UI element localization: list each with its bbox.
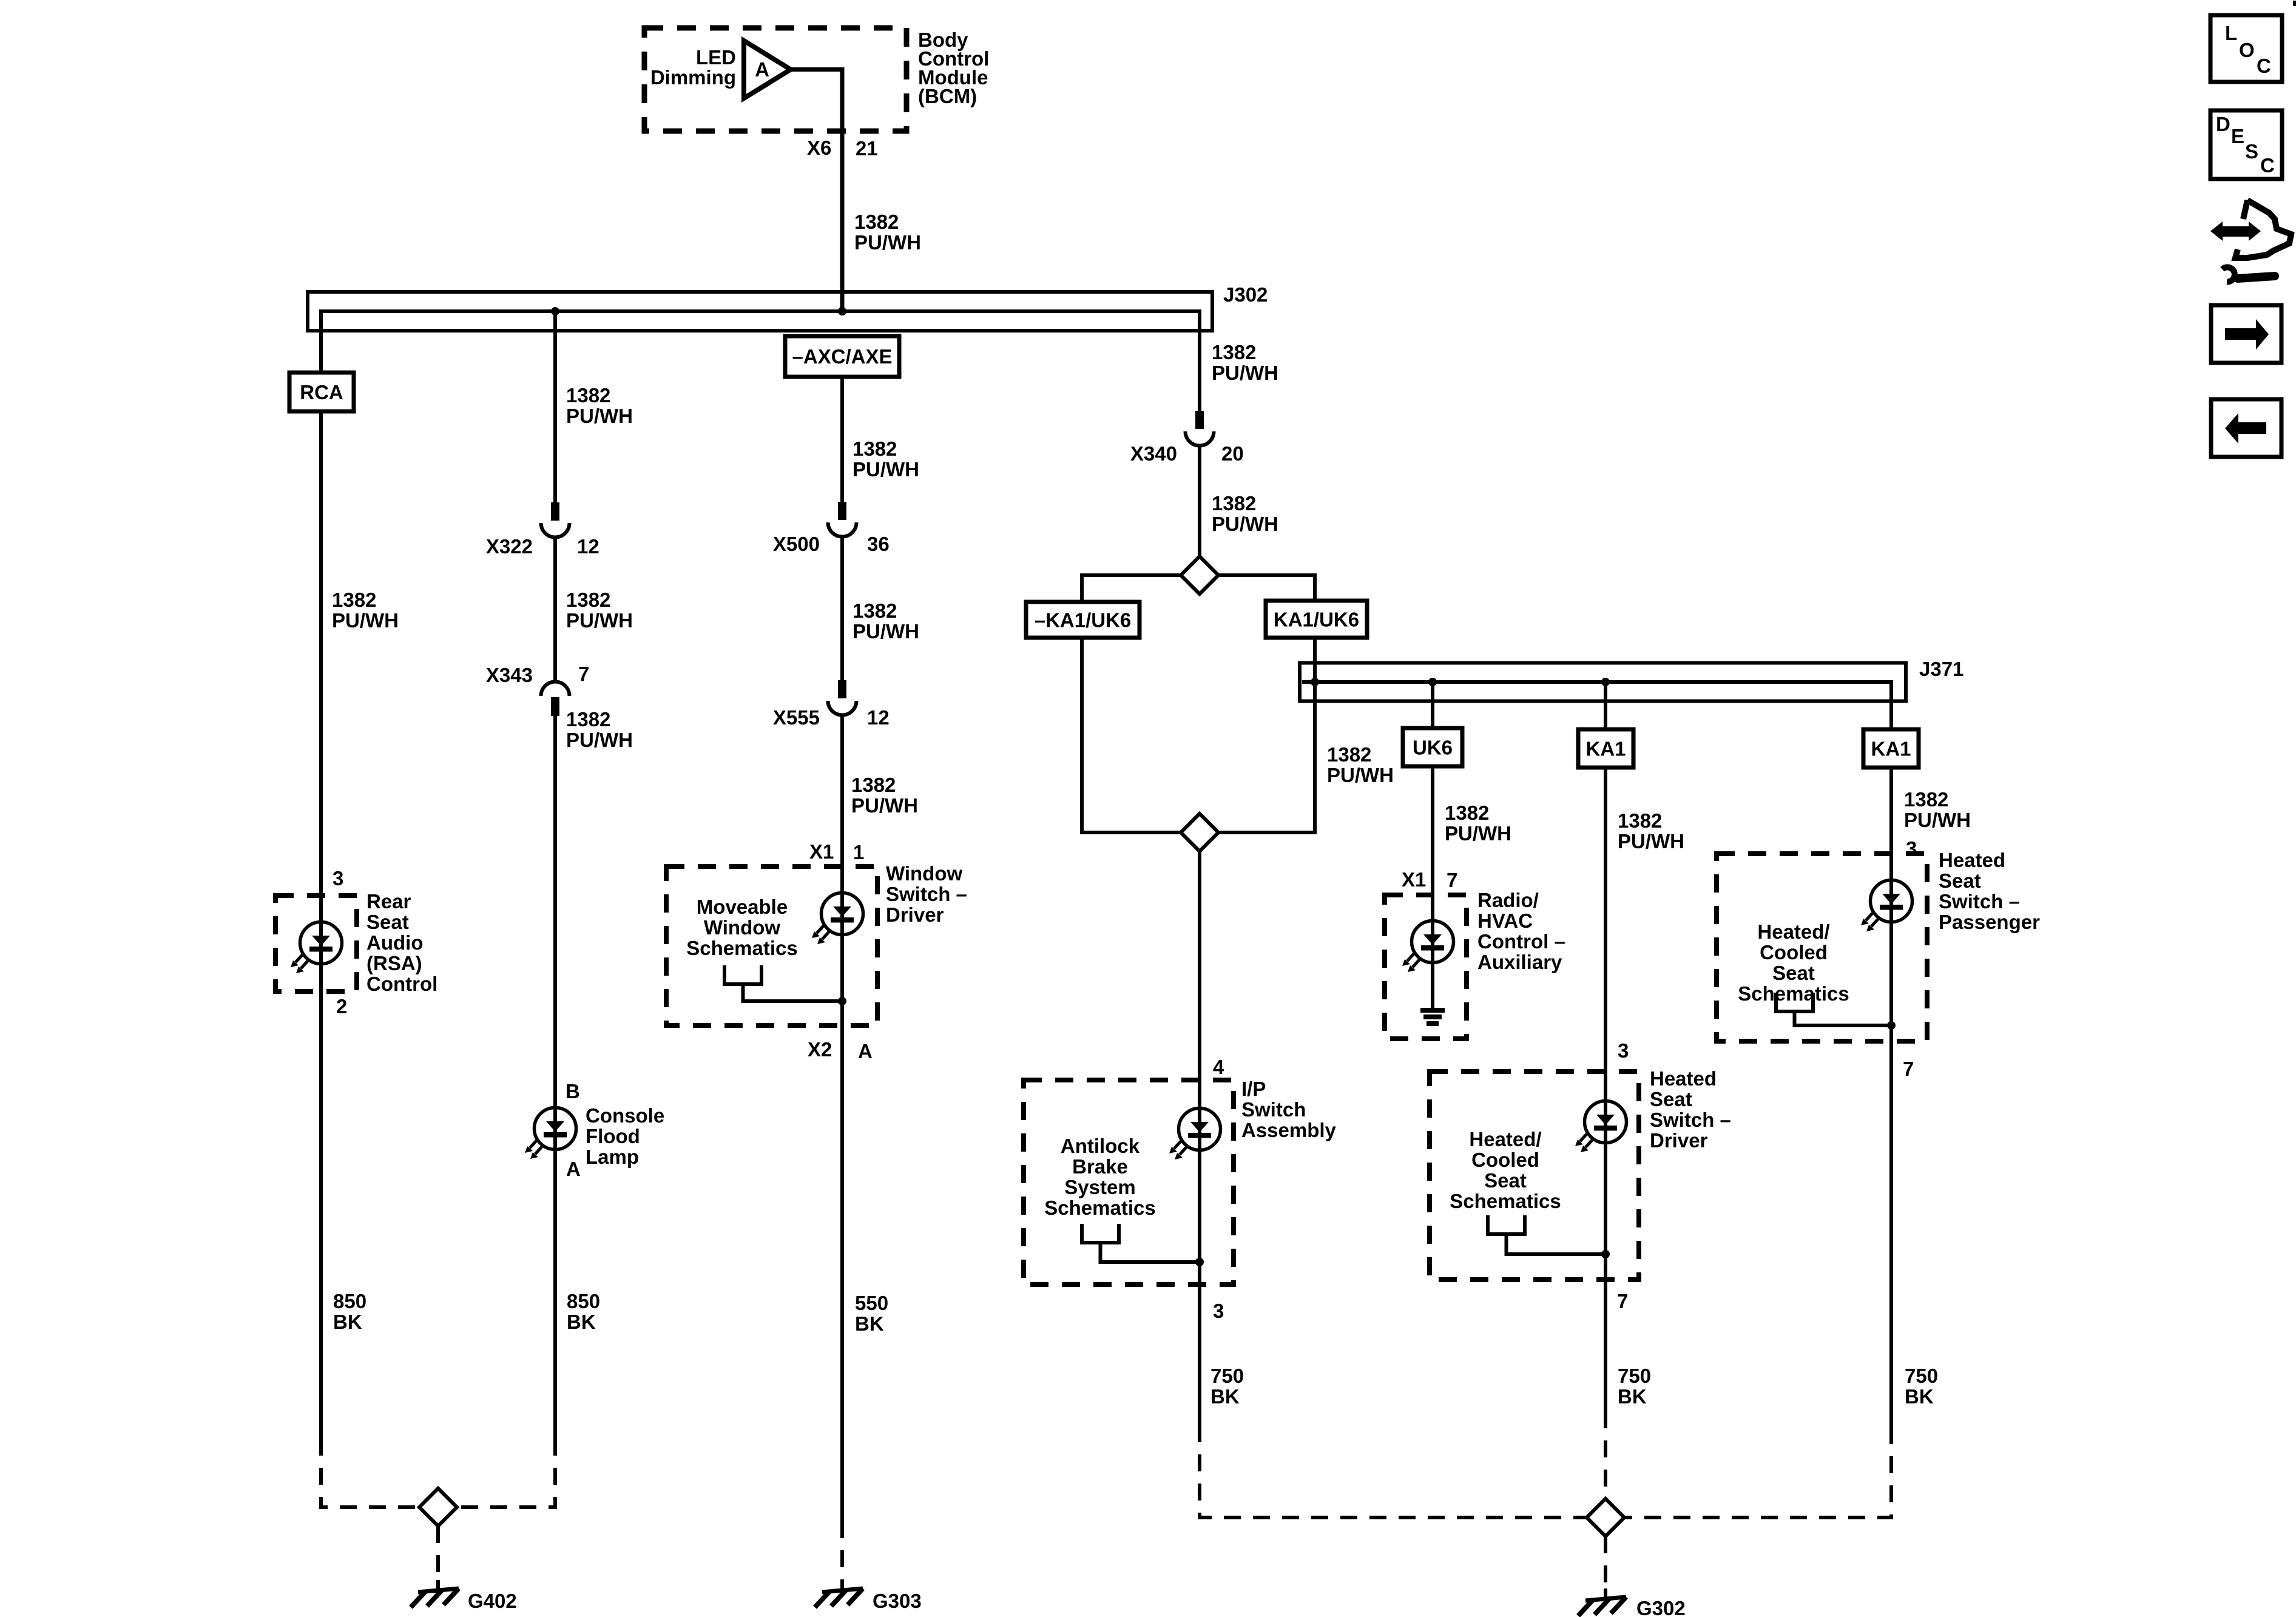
svg-text:A: A (858, 1040, 873, 1062)
connector X343 (541, 681, 570, 716)
svg-text:X322: X322 (486, 535, 533, 558)
svg-text:G303: G303 (873, 1590, 922, 1612)
svg-text:Assembly: Assembly (1241, 1119, 1337, 1141)
Heated/Cooled Seat Schematics dashed box (passenger) (1717, 854, 1927, 1041)
svg-text:PU/WH: PU/WH (566, 405, 633, 427)
svg-text:PU/WH: PU/WH (1618, 830, 1684, 852)
schematic reference bracket (moveable window) (724, 965, 761, 984)
LOC icon box (2210, 15, 2282, 82)
wire KA1 driver down (1604, 768, 1607, 1411)
svg-text:Schematics: Schematics (1450, 1190, 1561, 1212)
svg-text:750: 750 (1905, 1365, 1938, 1387)
Antilock Brake System Schematics label (1044, 1135, 1155, 1219)
svg-text:PU/WH: PU/WH (1212, 513, 1278, 535)
svg-text:B: B (566, 1080, 580, 1102)
svg-text:X343: X343 (486, 664, 533, 686)
LED indicator (RSA control) (291, 922, 342, 974)
svg-text:Window: Window (704, 916, 780, 939)
wire label 1382 PU/WH (KA1/UK6 drop) (1327, 743, 1394, 786)
wire bracket to KA1 passenger wire (1795, 1011, 1892, 1025)
wire label 550 BK (855, 1292, 888, 1335)
wire label 1382 PU/WH (console branch mid) (566, 589, 633, 632)
svg-text:RCA: RCA (300, 381, 343, 403)
wire -KA1/UK6 down to lower splice (1082, 638, 1183, 832)
Radio/HVAC dashed box (1385, 895, 1467, 1039)
RSA Control label (366, 890, 437, 995)
svg-text:Schematics: Schematics (1044, 1197, 1155, 1219)
svg-text:Schematics: Schematics (686, 937, 797, 959)
wire label 1382 PU/WH (window branch upper) (853, 437, 919, 481)
LED window switch illumination (812, 893, 863, 945)
LED Dimming label (650, 46, 736, 89)
wire label 1382 PU/WH (RCA branch) (332, 589, 399, 632)
svg-text:X340: X340 (1130, 442, 1177, 465)
svg-text:Seat: Seat (1772, 962, 1815, 984)
right arrow icon box (2211, 305, 2281, 363)
Heated Seat Switch - Passenger label (1939, 849, 2040, 933)
connector X322 (541, 502, 570, 538)
earth ground (radio internal) (1420, 1008, 1445, 1026)
svg-text:Driver: Driver (886, 903, 944, 926)
wire X343 down to console lamp (553, 715, 557, 1439)
junction dot (heated/cooled driver tap) (1601, 1250, 1610, 1258)
svg-text:O: O (2239, 39, 2255, 61)
svg-text:Seat: Seat (1939, 869, 1981, 892)
schematic reference bracket (heated/cooled passenger) (1776, 993, 1813, 1011)
svg-text:3: 3 (333, 867, 343, 890)
svg-text:1382: 1382 (851, 774, 896, 796)
pin X6 21 labels (807, 137, 878, 160)
svg-text:1382: 1382 (566, 384, 610, 407)
connector -KA1/UK6 box (1026, 602, 1140, 638)
wire label 1382 PU/WH (UK6 branch) (1445, 802, 1511, 845)
wire X500 to X555 (840, 536, 844, 681)
I/P Switch Assembly label (1241, 1078, 1337, 1141)
Moveable Window Schematics label (686, 896, 797, 959)
svg-text:Heated/: Heated/ (1469, 1128, 1541, 1150)
svg-text:PU/WH: PU/WH (566, 729, 633, 751)
ground G302 (1578, 1588, 1686, 1617)
svg-text:E: E (2231, 125, 2244, 147)
pin X1 7 (radio) (1402, 868, 1457, 891)
schematic reference bracket (ABS) (1082, 1224, 1119, 1243)
wire UK6 drop (1431, 682, 1434, 728)
svg-text:1382: 1382 (1212, 492, 1256, 515)
wire bracket to window wire (743, 984, 843, 1001)
svg-text:Cooled: Cooled (1760, 941, 1828, 964)
connector KA1 box (driver) (1578, 729, 1633, 768)
svg-text:Switch: Switch (1241, 1098, 1306, 1121)
svg-text:PU/WH: PU/WH (853, 620, 919, 643)
svg-text:Moveable: Moveable (697, 896, 788, 918)
splice pack J371 outer box (1300, 663, 1906, 701)
junction dot (ABS tap) (1195, 1258, 1204, 1266)
svg-text:1382: 1382 (854, 211, 899, 233)
svg-text:C: C (2260, 154, 2275, 177)
svg-text:Seat: Seat (366, 911, 409, 933)
svg-text:1382: 1382 (853, 437, 897, 460)
Heated/Cooled Seat Schematics dashed box (driver) (1430, 1072, 1639, 1280)
wire bracket to KA1 driver wire (1507, 1234, 1606, 1254)
svg-text:20: 20 (1221, 442, 1244, 465)
svg-text:Flood: Flood (586, 1125, 640, 1147)
LED I/P switch assembly (1169, 1109, 1221, 1160)
svg-text:J302: J302 (1223, 283, 1268, 306)
Console Flood Lamp label (586, 1104, 664, 1168)
svg-text:–AXC/AXE: –AXC/AXE (792, 345, 892, 368)
wire X555 down to G303 (840, 714, 844, 1521)
svg-text:750: 750 (1210, 1365, 1244, 1387)
svg-text:BK: BK (1210, 1385, 1240, 1408)
svg-text:1382: 1382 (1904, 788, 1948, 811)
junction on J302 (BCM feed) (838, 307, 846, 316)
wire console branch upper (553, 311, 557, 504)
dashed wire RSA branch to G402 (321, 1439, 421, 1507)
svg-text:A: A (566, 1158, 581, 1180)
svg-text:Switch –: Switch – (1939, 890, 2020, 913)
svg-text:Auxiliary: Auxiliary (1477, 951, 1562, 973)
svg-text:Seat: Seat (1650, 1088, 1692, 1110)
wire KA1 passenger down (1889, 768, 1893, 1427)
svg-text:Lamp: Lamp (586, 1146, 639, 1168)
svg-text:L: L (2225, 22, 2237, 44)
svg-text:2: 2 (336, 995, 347, 1018)
Body Control Module (BCM) dashed box (644, 28, 907, 131)
svg-text:X555: X555 (773, 706, 820, 729)
svg-text:7: 7 (578, 663, 589, 685)
svg-text:Passenger: Passenger (1939, 911, 2040, 933)
wire KA1 driver drop (1604, 682, 1607, 729)
wire lower splice to I/P switch (1198, 851, 1201, 1425)
svg-text:G302: G302 (1636, 1597, 1686, 1617)
wire label 1382 PU/WH (right branch above X340) (1212, 341, 1278, 384)
junction on J371 (KA1/UK6 feed) (1311, 678, 1319, 686)
svg-text:PU/WH: PU/WH (566, 609, 633, 632)
svg-text:21: 21 (856, 137, 878, 160)
svg-text:Switch –: Switch – (1650, 1109, 1731, 1131)
svg-text:G402: G402 (468, 1590, 517, 1612)
wire label 1382 PU/WH (console branch top) (566, 384, 633, 427)
svg-text:3: 3 (1906, 837, 1917, 860)
ground G303 (815, 1580, 922, 1612)
svg-text:PU/WH: PU/WH (1904, 809, 1971, 831)
svg-text:I/P: I/P (1241, 1078, 1266, 1100)
svg-text:C: C (2257, 55, 2271, 77)
svg-text:Schematics: Schematics (1738, 982, 1849, 1005)
svg-text:36: 36 (867, 533, 890, 555)
splice diamond G402 (419, 1488, 457, 1526)
svg-text:Seat: Seat (1484, 1169, 1527, 1192)
tools / schematic navigation icon (2210, 200, 2291, 282)
svg-text:850: 850 (333, 1290, 366, 1312)
svg-text:Control: Control (366, 973, 437, 995)
splice diamond G302 (1587, 1499, 1624, 1536)
Radio/HVAC Control - Auxiliary label (1477, 889, 1565, 973)
connector KA1 box (passenger) (1863, 729, 1919, 768)
svg-text:KA1: KA1 (1871, 738, 1911, 760)
wire X340 to splice diamond (1198, 445, 1201, 558)
svg-text:550: 550 (855, 1292, 888, 1314)
svg-text:7: 7 (1617, 1290, 1628, 1312)
corner artifact mark (2293, 1, 2296, 6)
Antilock Brake System Schematics dashed box (1024, 1080, 1234, 1284)
pin X1 1 (window switch) (809, 840, 864, 863)
svg-text:1382: 1382 (566, 708, 610, 731)
svg-text:A: A (755, 58, 769, 81)
wire RCA branch down (319, 411, 323, 1439)
svg-text:BK: BK (855, 1312, 884, 1335)
svg-text:PU/WH: PU/WH (1445, 822, 1511, 845)
junction on J371 (UK6 branch) (1428, 678, 1437, 686)
svg-text:System: System (1064, 1176, 1135, 1198)
connector UK6 box (1403, 728, 1462, 766)
wire label 1382 PU/WH (KA1 driver) (1618, 809, 1684, 852)
DESC icon box (2210, 110, 2282, 179)
svg-text:Cooled: Cooled (1471, 1149, 1539, 1171)
svg-text:750: 750 (1618, 1365, 1651, 1387)
svg-text:1382: 1382 (1445, 802, 1489, 824)
wire AXC box to X500 (840, 377, 844, 503)
schematic reference bracket (heated/cooled driver) (1488, 1215, 1525, 1234)
svg-text:(RSA): (RSA) (366, 952, 422, 974)
svg-text:Heated: Heated (1650, 1067, 1717, 1090)
ground G402 (411, 1580, 517, 1612)
svg-text:X6: X6 (807, 137, 831, 159)
svg-text:1: 1 (853, 841, 864, 863)
wire label 1382 PU/WH (BCM to J302) (854, 211, 921, 254)
connector X555 (828, 680, 857, 715)
svg-text:X1: X1 (809, 840, 834, 863)
svg-text:J371: J371 (1919, 658, 1963, 680)
J302 internal bus wire (321, 311, 1200, 412)
dashed wire console branch to G402 (455, 1439, 555, 1507)
wire UK6 to radio LED and ground (1431, 766, 1434, 1008)
svg-text:7: 7 (1903, 1058, 1914, 1080)
svg-text:Antilock: Antilock (1061, 1135, 1140, 1157)
splice pack J302 outer box (308, 292, 1212, 331)
left arrow icon box (2211, 399, 2281, 457)
svg-text:PU/WH: PU/WH (853, 458, 919, 481)
svg-text:3: 3 (1618, 1039, 1629, 1062)
wire upper splice left arm (1082, 575, 1183, 602)
svg-text:3: 3 (1213, 1300, 1224, 1322)
wire X322 to X343 (553, 536, 557, 682)
svg-text:PU/WH: PU/WH (851, 794, 918, 817)
wire upper splice right arm (1217, 575, 1315, 601)
wire label 1382 PU/WH (window branch lower) (851, 774, 918, 817)
svg-text:PU/WH: PU/WH (1327, 764, 1394, 786)
svg-text:1382: 1382 (853, 599, 897, 622)
svg-text:Audio: Audio (366, 931, 423, 954)
svg-text:(BCM): (BCM) (918, 85, 977, 107)
svg-text:1382: 1382 (1212, 341, 1256, 363)
Heated/Cooled Seat Schematics label (driver) (1450, 1128, 1561, 1212)
wire BCM output to J302 (789, 70, 842, 314)
wire label 1382 PU/WH (KA1 passenger) (1904, 788, 1971, 831)
svg-text:Switch –: Switch – (886, 883, 967, 905)
svg-text:12: 12 (867, 706, 890, 729)
wire label 1382 PU/WH (window branch mid) (853, 599, 919, 643)
J371 internal bus wire (1302, 682, 1891, 729)
junction dot (window schematics tap) (838, 997, 846, 1005)
svg-text:KA1: KA1 (1585, 738, 1626, 760)
junction on J371 (KA1 driver branch) (1601, 678, 1610, 686)
svg-text:KA1/UK6: KA1/UK6 (1274, 609, 1359, 631)
svg-text:Heated: Heated (1939, 849, 2005, 871)
LED radio/HVAC control (1402, 921, 1454, 973)
svg-text:–KA1/UK6: –KA1/UK6 (1035, 609, 1132, 632)
Window Switch - Driver label (886, 862, 967, 926)
svg-text:Driver: Driver (1650, 1129, 1708, 1152)
svg-text:4: 4 (1213, 1056, 1224, 1078)
connector X340 (1186, 411, 1214, 446)
svg-text:BK: BK (333, 1311, 362, 1333)
svg-text:Rear: Rear (366, 890, 411, 913)
wire label 1382 PU/WH (below X340) (1212, 492, 1278, 535)
connector KA1/UK6 box (1266, 601, 1367, 638)
svg-text:X500: X500 (773, 533, 820, 555)
splice diamond lower (1181, 814, 1218, 851)
svg-text:PU/WH: PU/WH (854, 231, 921, 254)
junction dot (heated/cooled passenger tap) (1887, 1021, 1896, 1030)
svg-text:LED: LED (696, 46, 736, 69)
connector X500 (828, 502, 857, 537)
svg-text:PU/WH: PU/WH (1212, 362, 1278, 384)
svg-text:BK: BK (1905, 1385, 1934, 1408)
LED heated seat switch driver (1575, 1101, 1627, 1153)
junction on J302 (console branch) (551, 307, 559, 316)
dashed wire I/P branch to ground bus (1200, 1425, 1589, 1517)
wire label 850 BK (console branch) (567, 1290, 600, 1333)
svg-text:Control –: Control – (1477, 930, 1565, 953)
svg-text:1382: 1382 (332, 589, 376, 611)
svg-text:1382: 1382 (1327, 743, 1371, 766)
LED console flood lamp (525, 1108, 576, 1160)
wire KA1/UK6 down through J371 to lower splice (1217, 638, 1315, 832)
wire label 850 BK (RSA branch) (333, 1290, 366, 1333)
svg-text:X2: X2 (808, 1038, 832, 1061)
wire bracket to I/P wire (1101, 1243, 1200, 1262)
Heated/Cooled Seat Schematics label (passenger) (1738, 920, 1849, 1005)
svg-text:HVAC: HVAC (1477, 910, 1533, 932)
wire label 1382 PU/WH (console branch lower) (566, 708, 633, 751)
svg-text:7: 7 (1447, 869, 1457, 891)
pin X2 A (window switch) (808, 1038, 873, 1062)
splice diamond upper (1181, 556, 1218, 594)
svg-text:1382: 1382 (566, 589, 610, 611)
svg-text:BK: BK (1618, 1385, 1647, 1408)
LED heated seat switch passenger (1861, 880, 1913, 932)
svg-text:Console: Console (586, 1104, 664, 1127)
svg-text:BK: BK (567, 1311, 596, 1333)
svg-text:Radio/: Radio/ (1477, 889, 1539, 911)
svg-text:PU/WH: PU/WH (332, 609, 399, 632)
svg-text:1382: 1382 (1618, 809, 1662, 832)
svg-text:Heated/: Heated/ (1757, 920, 1829, 943)
connector RCA box (289, 373, 354, 411)
svg-text:UK6: UK6 (1413, 737, 1453, 759)
svg-text:X1: X1 (1402, 868, 1426, 891)
dashed wire KA1 driver branch to ground bus (1604, 1411, 1607, 1501)
svg-text:S: S (2245, 140, 2258, 163)
svg-text:850: 850 (567, 1290, 600, 1312)
dashed wire KA1 passenger branch to ground bus (1622, 1427, 1891, 1517)
svg-text:Window: Window (886, 862, 962, 885)
wire dashed to G303 (840, 1521, 844, 1580)
svg-text:Dimming: Dimming (650, 66, 736, 89)
svg-text:12: 12 (577, 535, 599, 558)
Heated Seat Switch - Driver label (1650, 1067, 1731, 1152)
svg-text:D: D (2216, 113, 2230, 135)
connector -AXC/AXE box (785, 336, 899, 377)
Rear Seat Audio (RSA) Control dashed box (275, 896, 357, 991)
wire label 750 BK (I/P branch) (1210, 1365, 1244, 1408)
svg-text:Brake: Brake (1072, 1155, 1128, 1178)
driver buffer A (triangle) (744, 41, 791, 98)
Moveable Window Schematics dashed box (666, 866, 877, 1025)
wire label 750 BK (passenger) (1905, 1365, 1938, 1408)
dashed wire diamond to G402 ground (436, 1526, 440, 1580)
BCM label (918, 29, 989, 107)
dashed wire diamond to G302 ground (1604, 1536, 1607, 1587)
wire label 750 BK (driver) (1618, 1365, 1651, 1408)
